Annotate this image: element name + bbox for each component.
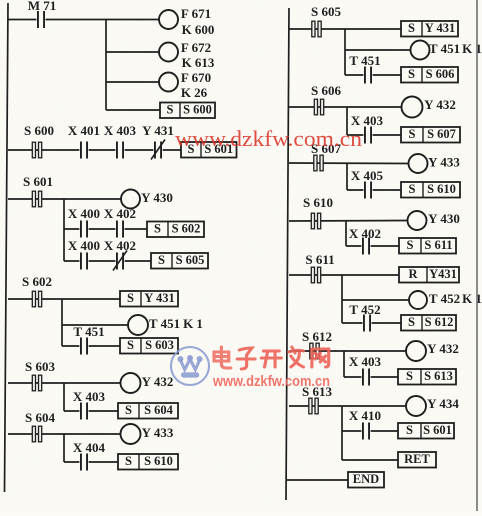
instruction box S S612: [401, 315, 456, 331]
branch line rung S601: [63, 199, 65, 261]
watermark text www.dzkfw.com.cn: [175, 126, 362, 151]
STL contact S601: [23, 174, 53, 207]
scan edge line: [476, 0, 478, 511]
branch line rung S604: [63, 434, 65, 462]
coil Y430 r: [408, 211, 460, 230]
left power rail: [5, 3, 9, 492]
branch line rung S606: [346, 107, 348, 135]
wire to coil T451r: [345, 49, 411, 51]
STL contact S613: [302, 384, 332, 414]
right power rail: [286, 8, 289, 500]
contact X402: [104, 206, 136, 239]
wire rung S604: [8, 433, 121, 435]
instruction box S Y431: [120, 291, 178, 307]
wire branch T451 set S603: [62, 345, 120, 347]
wire branch X405 set S610: [347, 189, 401, 191]
wire branch X400 X402 set S602: [64, 228, 147, 230]
wire branch X403 set S604: [64, 410, 118, 412]
contact X403b: [73, 389, 106, 421]
contact X403: [104, 123, 137, 160]
coil F672: [159, 40, 215, 70]
wire to coil T452: [342, 299, 409, 301]
branch line rung S602: [61, 299, 63, 346]
wire rung S612: [289, 350, 406, 352]
STL contact S607: [311, 141, 341, 171]
wire rung S600: [8, 149, 181, 151]
instruction box S S603: [120, 338, 178, 354]
instruction box S S605: [151, 253, 208, 269]
wire branch T451 set S606: [345, 74, 401, 76]
instruction box S S602: [147, 222, 204, 238]
instruction box S S601 b: [398, 423, 454, 439]
coil T451 K1: [411, 41, 482, 60]
branch line rung S605: [344, 29, 346, 75]
watermark url text: [212, 373, 330, 390]
contact M71: [28, 0, 57, 29]
contact T452 contact: [349, 302, 380, 333]
wire branch X403 set S607: [347, 134, 401, 136]
contact X400b: [68, 238, 100, 271]
coil Y430: [121, 190, 173, 209]
watermark logo W: [171, 347, 209, 385]
instruction box S S606: [401, 67, 458, 83]
instruction box S S604: [118, 403, 178, 419]
contact X403 r2: [349, 354, 382, 387]
wire to coil T451: [62, 324, 128, 326]
wire branch X400 X402 set S605: [64, 260, 151, 262]
STL contact S600: [24, 123, 54, 158]
NC contact Y431: [142, 123, 174, 160]
STL contact S612: [302, 329, 332, 359]
wire branch T452 set S612: [342, 322, 401, 324]
wire rung M71: [8, 19, 160, 21]
branch line rung S610: [345, 221, 347, 246]
STL contact S603: [25, 359, 55, 391]
instruction box END: [348, 472, 384, 488]
wire branch X410 set S601: [342, 430, 398, 432]
wire rung S605: [289, 28, 401, 30]
contact T451 contact: [73, 324, 104, 356]
contact X401: [68, 123, 100, 160]
branch line rung S607: [346, 163, 348, 190]
contact X405: [351, 168, 384, 200]
wire branch X403 set S613: [344, 376, 398, 378]
wire rung S606: [289, 106, 402, 108]
wire rung S603: [8, 382, 121, 384]
wire rung S610: [289, 220, 408, 223]
wire rung S602: [8, 298, 120, 300]
branch line rung M71: [105, 20, 107, 111]
coil Y433: [121, 424, 174, 444]
NC contact X402b: [104, 238, 136, 271]
coil Y432 r: [402, 97, 456, 118]
contact X403 r: [351, 113, 384, 145]
coil Y432 r2: [406, 341, 459, 361]
branch line rung S603: [63, 383, 65, 411]
wire to RET: [342, 459, 398, 461]
contact X410: [349, 408, 381, 441]
instruction box S S607: [401, 127, 460, 143]
STL contact S605: [311, 4, 341, 37]
reset box R Y431: [399, 267, 459, 283]
wire rung S611: [289, 274, 399, 276]
instruction box S Y431 b: [401, 21, 458, 37]
instruction box S S610 b: [401, 182, 460, 198]
STL contact S606: [311, 83, 341, 115]
wire to coil F672: [106, 51, 160, 53]
coil Y434: [406, 396, 459, 416]
instruction box S S613: [398, 369, 456, 385]
instruction box S S610: [118, 454, 178, 470]
instruction box S S601: [181, 142, 237, 158]
wire rung END: [287, 479, 348, 481]
STL contact S611: [305, 252, 334, 283]
wire rung S601: [8, 198, 121, 200]
coil F670: [159, 70, 211, 100]
coil Y433 r: [409, 154, 461, 173]
branch line rung S613: [341, 406, 343, 460]
STL contact S610: [303, 195, 333, 229]
instruction box S S600: [160, 103, 215, 119]
coil Y432: [121, 373, 174, 393]
contact T451 contact r: [349, 53, 380, 85]
contact X400: [68, 206, 100, 239]
wire rung S607: [289, 162, 409, 165]
wire to coil F670: [106, 81, 160, 83]
wire branch X402 set S611: [346, 245, 399, 247]
coil T451: [128, 315, 203, 335]
contact X402 r: [349, 226, 381, 256]
watermark chinese characters: [214, 347, 329, 369]
coil T452 K1: [409, 291, 482, 309]
STL contact S604: [25, 410, 55, 442]
instruction box RET: [398, 452, 436, 468]
STL contact S602: [22, 274, 52, 307]
branch line rung S612: [343, 351, 345, 377]
wire rung S613: [289, 405, 406, 407]
wire to box S600: [106, 109, 160, 111]
contact X404: [73, 440, 106, 472]
instruction box S S611: [399, 238, 456, 254]
coil F671: [159, 6, 214, 37]
branch line rung S611: [341, 275, 343, 323]
wire branch X404 set S610: [64, 461, 118, 463]
